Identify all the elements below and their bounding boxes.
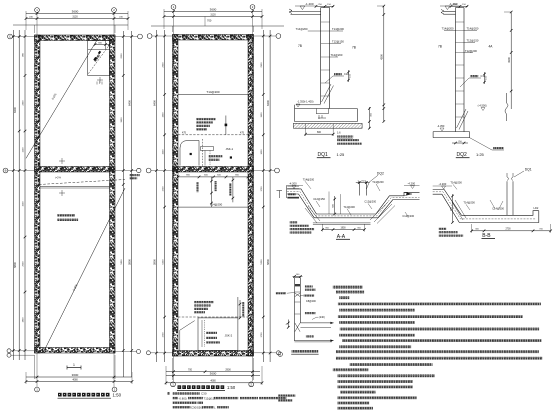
axis B extension line bbox=[8, 170, 35, 172]
svg-text:T14@200: T14@200 bbox=[442, 27, 454, 31]
DQ1 footing outline bbox=[295, 105, 358, 122]
DQ1 top flange lines bbox=[291, 11, 321, 13]
svg-text:2400: 2400 bbox=[23, 100, 25, 106]
svg-text:(-4.500): (-4.500) bbox=[478, 103, 487, 107]
svg-text:i=2%: i=2% bbox=[55, 175, 62, 179]
plan2 bottom-right side circle bbox=[276, 351, 280, 355]
svg-text:C30/S50(: C30/S50( bbox=[191, 405, 203, 409]
DQ1 wall right line bbox=[329, 8, 331, 109]
detail wall tick rows bbox=[295, 291, 301, 293]
DQ2 wall left line bbox=[455, 11, 457, 131]
DQ1 footing rebar hooks bbox=[318, 115, 326, 119]
svg-text:T14@200: T14@200 bbox=[463, 201, 475, 205]
notes line 5 bbox=[338, 315, 523, 318]
svg-text:3400: 3400 bbox=[121, 117, 123, 123]
svg-text:475: 475 bbox=[240, 131, 245, 134]
plan1 mid extension line right bbox=[115, 170, 137, 172]
svg-text:4300: 4300 bbox=[380, 54, 384, 60]
detail leader e bbox=[312, 317, 319, 319]
plan1 wall right bbox=[110, 35, 116, 353]
svg-text:3600: 3600 bbox=[72, 9, 79, 13]
plan1 wall bottom bbox=[35, 348, 116, 354]
svg-text:1500: 1500 bbox=[23, 201, 25, 207]
DQ1 rebar tick rows in wall bbox=[321, 21, 330, 23]
svg-text:-0.800,: -0.800, bbox=[179, 396, 188, 400]
svg-text:4080: 4080 bbox=[72, 378, 78, 381]
B-B bottom ext ticks bbox=[471, 224, 473, 233]
plan2 riser square bbox=[225, 124, 228, 127]
svg-text:5800: 5800 bbox=[152, 259, 156, 265]
plan2 bottom dim row3 bbox=[166, 382, 262, 384]
svg-text:1700: 1700 bbox=[261, 186, 263, 192]
plan1 interior cross mark lower bbox=[59, 192, 65, 194]
svg-text:1200: 1200 bbox=[23, 147, 25, 153]
svg-text:1700: 1700 bbox=[261, 332, 263, 338]
DQ2 wall top cap bbox=[456, 7, 465, 9]
DQ2 right dim long bbox=[510, 12, 512, 109]
svg-text:475: 475 bbox=[182, 131, 187, 134]
svg-text:C12@200: C12@200 bbox=[364, 200, 376, 204]
svg-text:5300: 5300 bbox=[163, 259, 165, 265]
axis circle 2 (plan1 top-right) bbox=[112, 8, 117, 13]
axis circle 1 (plan1 top-left) bbox=[35, 8, 40, 13]
notes header bbox=[333, 286, 363, 289]
svg-text:1700: 1700 bbox=[163, 186, 165, 192]
plan2 lower pit texts bbox=[206, 332, 217, 334]
axis circle 4 (plan2 top-right) bbox=[250, 5, 255, 10]
DQ1 wall left line bbox=[320, 12, 322, 105]
plan2 top extension line bbox=[151, 25, 284, 27]
svg-text:1: 1 bbox=[73, 363, 75, 367]
plan2 right dim chain inner bbox=[262, 30, 264, 362]
svg-text:1800: 1800 bbox=[23, 317, 25, 323]
B-B corner diagonals bbox=[455, 200, 466, 218]
svg-text:3120: 3120 bbox=[210, 13, 216, 16]
svg-text:6400: 6400 bbox=[128, 100, 132, 106]
notes line 11 bbox=[336, 350, 539, 353]
svg-text:5800: 5800 bbox=[13, 262, 17, 268]
detail slab mid line bbox=[300, 326, 331, 328]
plan1 interior cross mark mid bbox=[59, 160, 65, 162]
plan1 left dimension chain inner bbox=[24, 30, 26, 360]
plan2 lower riser bbox=[237, 297, 239, 318]
svg-text:5800: 5800 bbox=[266, 259, 270, 265]
A-A bottom dim bbox=[322, 229, 364, 231]
detail caption bbox=[292, 350, 319, 353]
notes line 21 bbox=[337, 407, 373, 410]
DQ2 base bottom dim bbox=[452, 142, 468, 144]
plan1 lower cell slope diagonal bbox=[44, 188, 125, 351]
DQ2 wall right line bbox=[463, 8, 465, 132]
DQ1 blinding hatch strip bbox=[293, 123, 362, 128]
plan2 dim under mid band bbox=[178, 176, 254, 178]
notes line 4 bbox=[339, 309, 415, 312]
svg-text:LD2: LD2 bbox=[534, 206, 539, 210]
section mark 1 horizontal bbox=[67, 367, 81, 369]
plan2 lower pit corner vline bbox=[179, 330, 181, 350]
plan2 right axis circle mid bbox=[275, 168, 280, 173]
plan2 bottom dim row1 bbox=[166, 371, 260, 373]
detail slab top line bbox=[300, 322, 333, 324]
B-B column lines bbox=[506, 181, 508, 215]
svg-text:),: ), bbox=[214, 405, 216, 409]
plan2 lower dashed line bbox=[178, 316, 250, 318]
svg-text:T14@200: T14@200 bbox=[450, 181, 462, 185]
plan2 dashed line y134.8 bbox=[178, 134, 248, 136]
plan2 bottom axis circle 2 bbox=[249, 382, 254, 387]
plan2 left axis circle top bbox=[147, 34, 152, 39]
bottom-left note a bbox=[278, 394, 295, 396]
plan1 top extension line right + circle bbox=[115, 36, 138, 38]
svg-text:-1.400: -1.400 bbox=[305, 2, 314, 6]
DQ1 bottom extension ticks bbox=[305, 124, 307, 136]
plan1 right dim chain outer bbox=[131, 31, 133, 377]
plan1 title bbox=[58, 393, 62, 397]
svg-text:7B: 7B bbox=[298, 44, 302, 48]
notes line 3 bbox=[338, 303, 541, 306]
detail left label + leader bbox=[276, 292, 287, 294]
svg-text:5300: 5300 bbox=[261, 259, 263, 265]
A-A bottom ext ticks bbox=[321, 224, 323, 232]
B-B bottom dim bbox=[472, 230, 551, 232]
svg-text:3600: 3600 bbox=[210, 371, 217, 375]
plan2 riser line bbox=[225, 116, 227, 135]
DQ2 base leader bbox=[470, 138, 505, 150]
plan2 bottom dim row2 bbox=[166, 375, 260, 377]
plan1 bottom dimension row2 bbox=[26, 381, 132, 383]
svg-text:5800: 5800 bbox=[121, 259, 123, 265]
A-A vdim mid bbox=[334, 196, 336, 214]
DQ1 footing inner step bbox=[315, 109, 317, 114]
DQ1 wall top cap bbox=[321, 7, 330, 9]
DQ1 bottom dim 800 bbox=[306, 133, 334, 135]
svg-text:T14@200: T14@200 bbox=[343, 205, 355, 209]
detail left vdim bbox=[287, 320, 289, 328]
plan2 lower pit inner column bbox=[201, 320, 203, 347]
svg-text:7B: 7B bbox=[438, 45, 442, 49]
plan2 left dim chain inner bbox=[164, 30, 166, 362]
svg-text:1900: 1900 bbox=[163, 112, 165, 118]
svg-text:1700: 1700 bbox=[163, 332, 165, 338]
DQ2 mid vdim bbox=[484, 72, 486, 84]
plan1 opening arrow marks bbox=[98, 51, 101, 55]
plan2 lower annotation block bbox=[194, 301, 214, 303]
svg-text:4080: 4080 bbox=[210, 380, 216, 383]
svg-text:-4.200: -4.200 bbox=[408, 181, 416, 185]
svg-text:2000: 2000 bbox=[23, 261, 25, 267]
plan2 right dim chain outer bbox=[269, 30, 271, 362]
svg-text:1:50: 1:50 bbox=[113, 393, 122, 398]
svg-text:T14@200: T14@200 bbox=[467, 27, 479, 31]
plan1 top dimension row 2 bbox=[26, 18, 128, 20]
plan1 stair opening outline bbox=[88, 41, 110, 76]
plan2 title bbox=[178, 385, 182, 389]
plan2 notes line2 bbox=[173, 397, 178, 399]
plan1 mid dashed slope line bbox=[39, 180, 125, 185]
detail top dim 100 bbox=[293, 275, 303, 277]
plan2 sump pit outline upper bbox=[180, 141, 199, 166]
plan2 lower pit corner slope bbox=[180, 321, 195, 331]
notes line 9 bbox=[342, 339, 541, 342]
mid wall rebar note between plans bbox=[130, 174, 140, 176]
detail slab label bbox=[306, 335, 314, 337]
notes line 1 bbox=[336, 291, 364, 294]
svg-text:1900: 1900 bbox=[261, 112, 263, 118]
plan1 left dimension chain middle bbox=[18, 30, 20, 360]
plan1 top extension line bbox=[13, 24, 128, 26]
plan2 wall left bbox=[173, 35, 179, 357]
svg-text:2900: 2900 bbox=[163, 62, 165, 68]
A-A pit bottom surface bbox=[287, 194, 420, 218]
detail caption circle bbox=[278, 352, 282, 356]
axis line 2 vertical bbox=[113, 12, 115, 387]
notes line 14 bbox=[333, 368, 369, 371]
detail wall right line bbox=[299, 278, 301, 323]
A-A vert guide lines mid bbox=[328, 192, 330, 215]
plan2 vertical dim mid bbox=[211, 177, 213, 207]
plan2 sump inner marks bbox=[204, 151, 206, 166]
svg-text:2000: 2000 bbox=[121, 53, 123, 59]
plan2 upper annotation block bbox=[196, 118, 216, 120]
DQ1 small vdim right bbox=[348, 70, 350, 82]
svg-text:-1.350(-1.400): -1.350(-1.400) bbox=[297, 100, 314, 104]
plan2 rotated note b bbox=[229, 183, 231, 196]
DQ2 rebar tick rows bbox=[456, 21, 465, 23]
plan2 sump pit dashed edge bbox=[202, 139, 204, 166]
svg-text:2700: 2700 bbox=[505, 229, 511, 231]
notes line 2 bbox=[339, 296, 349, 299]
plan1 bottom-right extension bbox=[115, 351, 137, 353]
axis line 4 vertical bbox=[252, 9, 254, 381]
plan1 bottom axis circle 2 bbox=[112, 387, 117, 392]
svg-text:6400: 6400 bbox=[152, 100, 156, 106]
detail wall left line bbox=[294, 278, 296, 342]
svg-text:4300: 4300 bbox=[507, 57, 511, 63]
detail wall top cap bbox=[295, 277, 301, 279]
svg-text:-4.200: -4.200 bbox=[439, 182, 447, 186]
detail right text d bbox=[305, 312, 316, 314]
plan2 pit sub text bbox=[209, 155, 223, 157]
svg-text:3120: 3120 bbox=[72, 15, 78, 18]
plan2 wall top bbox=[173, 35, 254, 41]
notes line 20 bbox=[337, 402, 369, 405]
svg-text:1:25: 1:25 bbox=[337, 152, 346, 157]
notes line 10 bbox=[339, 345, 411, 348]
A-A corner rebar diagonals bbox=[374, 204, 392, 222]
detail right text b bbox=[304, 294, 315, 296]
axis line 3 vertical bbox=[173, 9, 175, 381]
plan2 notes line4 bbox=[173, 406, 191, 408]
svg-text:JSK-2: JSK-2 bbox=[225, 334, 233, 338]
svg-text:T14@200: T14@200 bbox=[303, 177, 315, 181]
B-B column break squiggle bbox=[507, 173, 513, 181]
svg-text:C30: C30 bbox=[201, 392, 207, 396]
axis C extension line bbox=[12, 36, 34, 38]
DQ2 base slab bbox=[433, 132, 469, 138]
plan1 wall middle bbox=[35, 167, 116, 173]
A-A note block bbox=[290, 221, 298, 223]
axis line 1 vertical bbox=[36, 12, 38, 387]
plan2 rotated note c bbox=[197, 182, 199, 192]
B-B pit bottom surface bbox=[433, 194, 539, 222]
DQ1 right dim short bbox=[368, 107, 370, 129]
plan2 sump small rect bbox=[201, 147, 214, 151]
svg-text:1:25: 1:25 bbox=[476, 152, 485, 157]
plan2 bottom axis circle 1 bbox=[171, 382, 176, 387]
plan2 small vdim right bbox=[232, 177, 234, 203]
svg-text:1900: 1900 bbox=[340, 227, 346, 229]
B-B note block bbox=[439, 228, 447, 230]
notes line 18 bbox=[340, 391, 376, 394]
plan2 wall right bbox=[248, 35, 254, 357]
svg-text:T12@200: T12@200 bbox=[465, 49, 477, 53]
svg-text:T12@150: T12@150 bbox=[332, 40, 344, 44]
plan2 rotated note a bbox=[215, 181, 217, 191]
axis circle 3 (plan2 top-left) bbox=[171, 5, 176, 10]
plan1 upper cell slope diagonal bbox=[26, 35, 100, 158]
DQ1 top dim 250/150 bbox=[316, 5, 334, 7]
svg-text:5800: 5800 bbox=[128, 259, 132, 265]
svg-text:T14@200: T14@200 bbox=[206, 90, 220, 94]
plan1 bottom extension verticals bbox=[25, 372, 27, 384]
plan2 bottom-left side circle bbox=[146, 351, 150, 355]
axis circle B (plan1 left mid) bbox=[3, 168, 8, 173]
svg-text:T14@200: T14@200 bbox=[210, 203, 223, 207]
plan1 opening top dim bbox=[95, 44, 110, 46]
svg-text:C: C bbox=[9, 35, 11, 39]
svg-text:700: 700 bbox=[188, 369, 193, 372]
svg-text:DQ1: DQ1 bbox=[525, 167, 532, 171]
plan2 wall middle bbox=[173, 167, 254, 173]
DQ1 break symbol top-left bbox=[289, 9, 292, 14]
A-A right step arrow bbox=[404, 192, 412, 196]
svg-text:C14@200: C14@200 bbox=[402, 214, 414, 218]
svg-text:7B: 7B bbox=[352, 46, 356, 50]
DQ2 top dim bbox=[451, 5, 468, 7]
svg-text:T14@200: T14@200 bbox=[332, 27, 344, 31]
plan1 slab note bbox=[57, 214, 75, 216]
B-B vdim left bbox=[452, 194, 454, 223]
DQ1 step line bbox=[296, 104, 321, 106]
svg-text:-4.350: -4.350 bbox=[437, 124, 445, 128]
plan1 bottom dimension row1 bbox=[26, 376, 132, 378]
svg-text:T14@200: T14@200 bbox=[296, 27, 308, 31]
notes line 6 bbox=[339, 321, 415, 324]
plan2 right axis circle top bbox=[276, 34, 281, 39]
plan1 wall top bbox=[35, 35, 116, 41]
DQ1 dowel diagonal bbox=[322, 84, 332, 102]
plan2 wall bottom bbox=[173, 351, 254, 357]
plan2 top dimension row2 bbox=[164, 16, 262, 18]
bottom-left note b bbox=[278, 399, 292, 401]
plan2 left axis circle mid bbox=[146, 168, 151, 173]
B-B pit top surface bbox=[433, 190, 539, 216]
A-A stub dim 250 bbox=[356, 182, 370, 184]
svg-text:1:6: 1:6 bbox=[337, 131, 341, 135]
svg-text:C12@150: C12@150 bbox=[313, 197, 325, 201]
svg-text:-4.200: -4.200 bbox=[289, 181, 297, 185]
plan2 extension verticals bbox=[163, 9, 165, 29]
svg-text:700: 700 bbox=[207, 19, 212, 23]
DQ2 dowel diagonal bbox=[457, 109, 467, 128]
plan2 top dimension row1 bbox=[164, 11, 262, 13]
notes line 13 bbox=[350, 363, 433, 366]
svg-text:(240): (240) bbox=[319, 316, 325, 319]
plan1 interior cross mark upper bbox=[97, 79, 103, 81]
plan1 right dim chain inner bbox=[122, 31, 124, 377]
svg-text:6400: 6400 bbox=[266, 100, 270, 106]
plan1 opening rotated label bbox=[94, 54, 100, 62]
svg-text:1:50: 1:50 bbox=[227, 385, 236, 390]
axis circle C (plan1 left top) bbox=[8, 34, 13, 39]
plan1 beam line below middle wall bbox=[40, 186, 110, 188]
plan1 bottom-left axis circles bbox=[7, 349, 11, 353]
svg-text:6400: 6400 bbox=[13, 107, 17, 113]
svg-text:JSK-1: JSK-1 bbox=[226, 147, 234, 151]
A-A left corner diagonals bbox=[308, 206, 320, 221]
svg-text:C8@200: C8@200 bbox=[306, 300, 317, 303]
notes line 12 bbox=[336, 357, 543, 360]
svg-text:2900: 2900 bbox=[225, 369, 231, 372]
plan2 notes line3 bbox=[173, 402, 197, 404]
plan2 lower pit rect bbox=[198, 318, 238, 351]
notes line 7 bbox=[340, 328, 539, 331]
plan2 black square b bbox=[230, 156, 232, 158]
DQ2 mid leader + text bbox=[460, 78, 481, 87]
plan1 wall left bbox=[35, 35, 41, 353]
A-A DQ2 wall stub bbox=[358, 182, 360, 196]
detail wall X mark upper bbox=[295, 293, 300, 297]
plan2 line y207 bbox=[178, 206, 248, 208]
A-A pit top surface bbox=[287, 189, 420, 214]
detail slab bottom lines bbox=[295, 340, 334, 342]
svg-text:T12@200: T12@200 bbox=[331, 53, 343, 57]
svg-text:1600: 1600 bbox=[163, 149, 165, 155]
notes line 17 bbox=[337, 386, 413, 389]
DQ2 top flange lines bbox=[443, 10, 455, 12]
B-B rebar dashed bbox=[433, 192, 536, 219]
plan1 bottom axis circle 1 bbox=[35, 387, 40, 392]
DQ2 right break squiggle bbox=[505, 93, 508, 121]
plan2 notes line1 bbox=[167, 392, 170, 395]
svg-text:800: 800 bbox=[317, 131, 322, 134]
svg-text:T12@150: T12@150 bbox=[467, 39, 479, 43]
DQ1 mid leader + text bbox=[325, 76, 344, 83]
notes line 8 bbox=[339, 334, 415, 337]
svg-text:1600: 1600 bbox=[261, 149, 263, 155]
notes line 19 bbox=[337, 396, 416, 399]
plan1 top dimension row 1 bbox=[26, 13, 128, 15]
plan2 black square a bbox=[190, 153, 192, 155]
notes line 16 bbox=[337, 380, 413, 383]
detail wall X mark lower bbox=[295, 323, 300, 332]
notes line 15 bbox=[337, 374, 434, 377]
DQ1 right dim long bbox=[383, 6, 385, 122]
plan1 opening inner line v bbox=[105, 41, 107, 50]
A-A rebar dashed middle bbox=[287, 191, 420, 216]
svg-text:2900: 2900 bbox=[261, 62, 263, 68]
svg-text:B: B bbox=[5, 169, 7, 173]
plan1 left dimension chain outer bbox=[12, 30, 14, 360]
plan2 left dim chain outer bbox=[155, 30, 157, 362]
plan1 opening diagonal bbox=[88, 45, 109, 74]
plan2 right small mark bbox=[277, 190, 283, 192]
plan1 opening inner line h bbox=[88, 48, 110, 50]
svg-text:DQ2: DQ2 bbox=[377, 171, 384, 175]
A-A blinding layer lines bbox=[313, 222, 371, 224]
plan2 lower elev dim bbox=[239, 300, 241, 318]
DQ2 break symbol top-left bbox=[441, 10, 444, 15]
